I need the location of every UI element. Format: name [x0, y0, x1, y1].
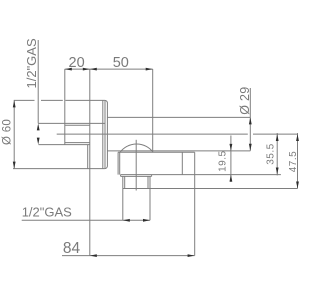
svg-text:19.5: 19.5	[217, 150, 228, 171]
svg-text:47.5: 47.5	[288, 151, 299, 172]
svg-text:Ø 60: Ø 60	[2, 119, 14, 145]
svg-text:84: 84	[63, 240, 81, 257]
svg-text:Ø 29: Ø 29	[238, 86, 252, 114]
svg-text:1/2"GAS: 1/2"GAS	[24, 38, 39, 88]
svg-text:1/2"GAS: 1/2"GAS	[22, 205, 72, 220]
svg-text:20: 20	[69, 55, 85, 71]
svg-text:35.5: 35.5	[266, 143, 277, 164]
svg-text:50: 50	[113, 55, 129, 71]
